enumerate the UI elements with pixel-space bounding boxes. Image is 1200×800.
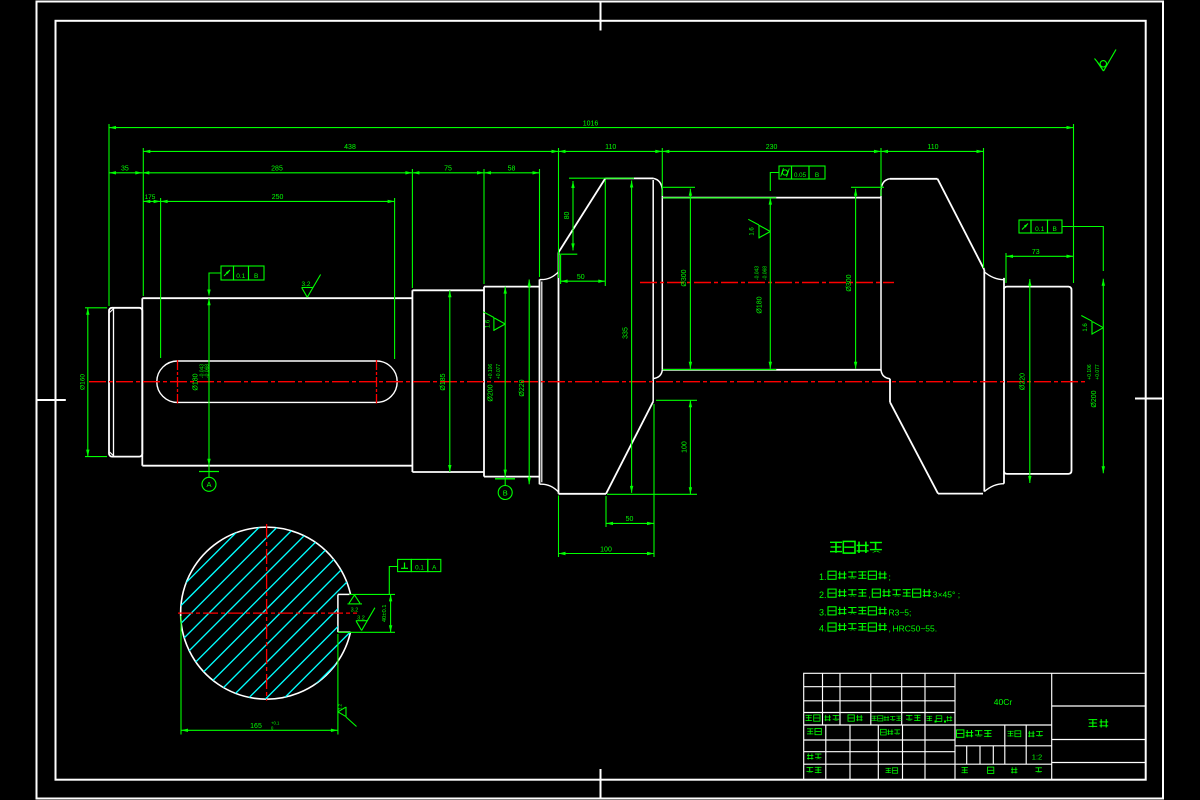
svg-text:+0.106: +0.106 xyxy=(1087,364,1093,380)
svg-text:1.: 1. xyxy=(819,572,827,582)
svg-text:0.1: 0.1 xyxy=(415,564,424,571)
svg-text:+0.077: +0.077 xyxy=(496,364,502,380)
svg-text:Ø220: Ø220 xyxy=(1020,373,1027,390)
svg-text:Ø200: Ø200 xyxy=(1091,390,1098,407)
svg-text:1.6: 1.6 xyxy=(1083,323,1089,332)
svg-text:,: , xyxy=(868,590,870,600)
svg-text:335: 335 xyxy=(623,327,630,339)
svg-text:1:2: 1:2 xyxy=(1032,753,1042,762)
svg-text:40Cr: 40Cr xyxy=(994,697,1013,707)
svg-text:1.6: 1.6 xyxy=(750,227,756,236)
svg-text:58: 58 xyxy=(508,166,516,173)
svg-text:+0.106: +0.106 xyxy=(488,364,494,380)
svg-text:250: 250 xyxy=(272,194,284,201)
svg-text:50: 50 xyxy=(577,274,585,281)
svg-text:Ø180: Ø180 xyxy=(757,296,764,313)
svg-text:B: B xyxy=(503,489,508,498)
svg-text:4.: 4. xyxy=(819,624,827,634)
svg-text:165: 165 xyxy=(250,723,262,730)
svg-text:Ø300: Ø300 xyxy=(846,274,853,291)
svg-text:50: 50 xyxy=(626,516,634,523)
svg-text:-0.068: -0.068 xyxy=(763,266,769,280)
svg-text:Ø220: Ø220 xyxy=(519,379,526,396)
svg-text:110: 110 xyxy=(927,144,938,151)
svg-text:+0.077: +0.077 xyxy=(1095,364,1101,380)
svg-text:Ø185: Ø185 xyxy=(440,373,447,390)
svg-text:285: 285 xyxy=(271,166,283,173)
svg-text:438: 438 xyxy=(344,144,356,151)
svg-text:HRC50~55.: HRC50~55. xyxy=(892,624,937,634)
svg-text:B: B xyxy=(1053,226,1057,233)
svg-text:73: 73 xyxy=(1032,249,1040,256)
svg-text:3.2: 3.2 xyxy=(301,281,310,288)
svg-text:Ø200: Ø200 xyxy=(488,384,495,401)
svg-text:3.: 3. xyxy=(819,608,827,618)
svg-text:40±0.1: 40±0.1 xyxy=(382,604,388,622)
svg-text:100: 100 xyxy=(600,546,612,553)
svg-text:100: 100 xyxy=(681,441,688,453)
svg-text:3.2: 3.2 xyxy=(357,616,365,622)
svg-text:3.2: 3.2 xyxy=(351,608,359,614)
svg-text:2.: 2. xyxy=(819,590,827,600)
svg-text:175: 175 xyxy=(145,194,156,201)
svg-text:Ø180: Ø180 xyxy=(193,373,200,390)
svg-text:75: 75 xyxy=(444,166,452,173)
svg-text:,: , xyxy=(888,624,890,634)
svg-text:0.1: 0.1 xyxy=(236,273,245,280)
svg-text:;: ; xyxy=(888,572,890,582)
svg-text:80: 80 xyxy=(564,212,571,220)
svg-text:Ø300: Ø300 xyxy=(681,269,688,286)
svg-text:A: A xyxy=(206,480,211,489)
svg-text:-0.068: -0.068 xyxy=(205,364,211,378)
svg-text:B: B xyxy=(254,273,258,280)
svg-text:0.1: 0.1 xyxy=(1035,226,1044,233)
svg-text:0.05: 0.05 xyxy=(794,172,807,179)
svg-text:3×45° ;: 3×45° ; xyxy=(933,590,960,600)
svg-text:35: 35 xyxy=(121,166,129,173)
svg-text:230: 230 xyxy=(766,144,778,151)
svg-text:-0.043: -0.043 xyxy=(755,266,761,280)
svg-text:110: 110 xyxy=(605,144,616,151)
svg-text:1016: 1016 xyxy=(583,120,599,127)
svg-text:Ø160: Ø160 xyxy=(80,374,87,390)
svg-text:B: B xyxy=(815,172,819,179)
svg-text:1.6: 1.6 xyxy=(486,319,492,328)
svg-text:A: A xyxy=(432,564,437,571)
svg-text:R3~5;: R3~5; xyxy=(888,607,911,617)
svg-text:3.2: 3.2 xyxy=(338,703,343,710)
